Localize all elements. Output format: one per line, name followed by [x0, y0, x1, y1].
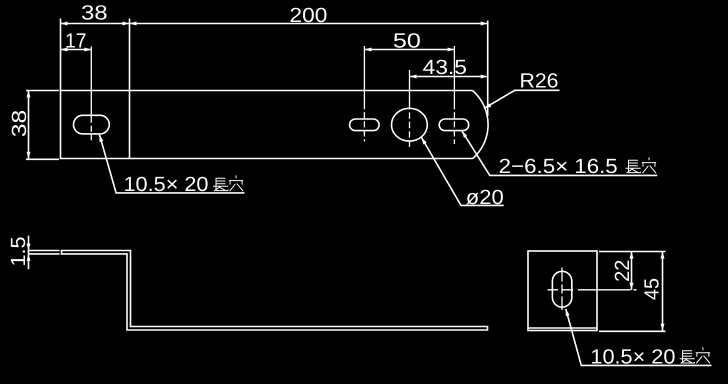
- end view slot centerlines: [561, 268, 563, 311]
- svg-text:38: 38: [8, 110, 31, 137]
- bend line: [129, 19, 131, 159]
- hole circle 20: [392, 108, 428, 141]
- svg-text:200: 200: [290, 4, 328, 27]
- svg-text:22: 22: [611, 260, 634, 282]
- svg-text:2−6.5× 16.5: 2−6.5× 16.5: [499, 155, 618, 178]
- extension lines end view: [599, 251, 666, 253]
- slot 6.5x16.5 right: [439, 119, 469, 131]
- end view slot 10.5x20: [552, 271, 571, 307]
- leader 2-6.5x16.5: [462, 131, 657, 176]
- svg-text:50: 50: [393, 29, 421, 52]
- dimension 43.5: [410, 76, 487, 78]
- svg-text:38: 38: [81, 1, 107, 24]
- svg-text:43.5: 43.5: [423, 56, 467, 79]
- dimension 1.5: [28, 236, 30, 270]
- dimension 45: [662, 252, 664, 331]
- slot 10.5x20 left: [74, 115, 110, 134]
- end view square: [528, 251, 597, 331]
- dimension 17: [61, 49, 92, 51]
- leader o20: [422, 138, 504, 206]
- svg-text:R26: R26: [520, 70, 559, 93]
- dimension 38/200 top line: [61, 23, 487, 25]
- end view flange line: [528, 327, 597, 329]
- leader 10.5x20 top-left label: [100, 135, 245, 193]
- svg-text:17: 17: [65, 29, 87, 52]
- extension line arc apex: [487, 21, 489, 117]
- leader R26: [484, 90, 559, 108]
- svg-text:45: 45: [641, 278, 664, 300]
- side view outline: [62, 251, 488, 331]
- dimension 50: [364, 49, 454, 51]
- svg-text:1.5: 1.5: [7, 237, 30, 267]
- leader 10.5x20 bottom label: [566, 309, 712, 366]
- centerline vertical small slot right: [453, 46, 455, 103]
- slot 6.5x16.5 left: [350, 119, 380, 131]
- centerline vertical left slot: [90, 47, 92, 117]
- centerline vertical small slot left: [363, 46, 365, 103]
- dimension 22: [631, 252, 633, 290]
- centerline vertical circle: [409, 70, 411, 103]
- extension line left edge top: [60, 19, 62, 91]
- dimension 38 left vertical: [28, 91, 30, 159]
- svg-text:10.5× 20: 10.5× 20: [590, 345, 675, 368]
- top view plate outline: [61, 91, 489, 159]
- svg-text:ø20: ø20: [466, 186, 504, 209]
- svg-text:10.5× 20: 10.5× 20: [124, 173, 209, 196]
